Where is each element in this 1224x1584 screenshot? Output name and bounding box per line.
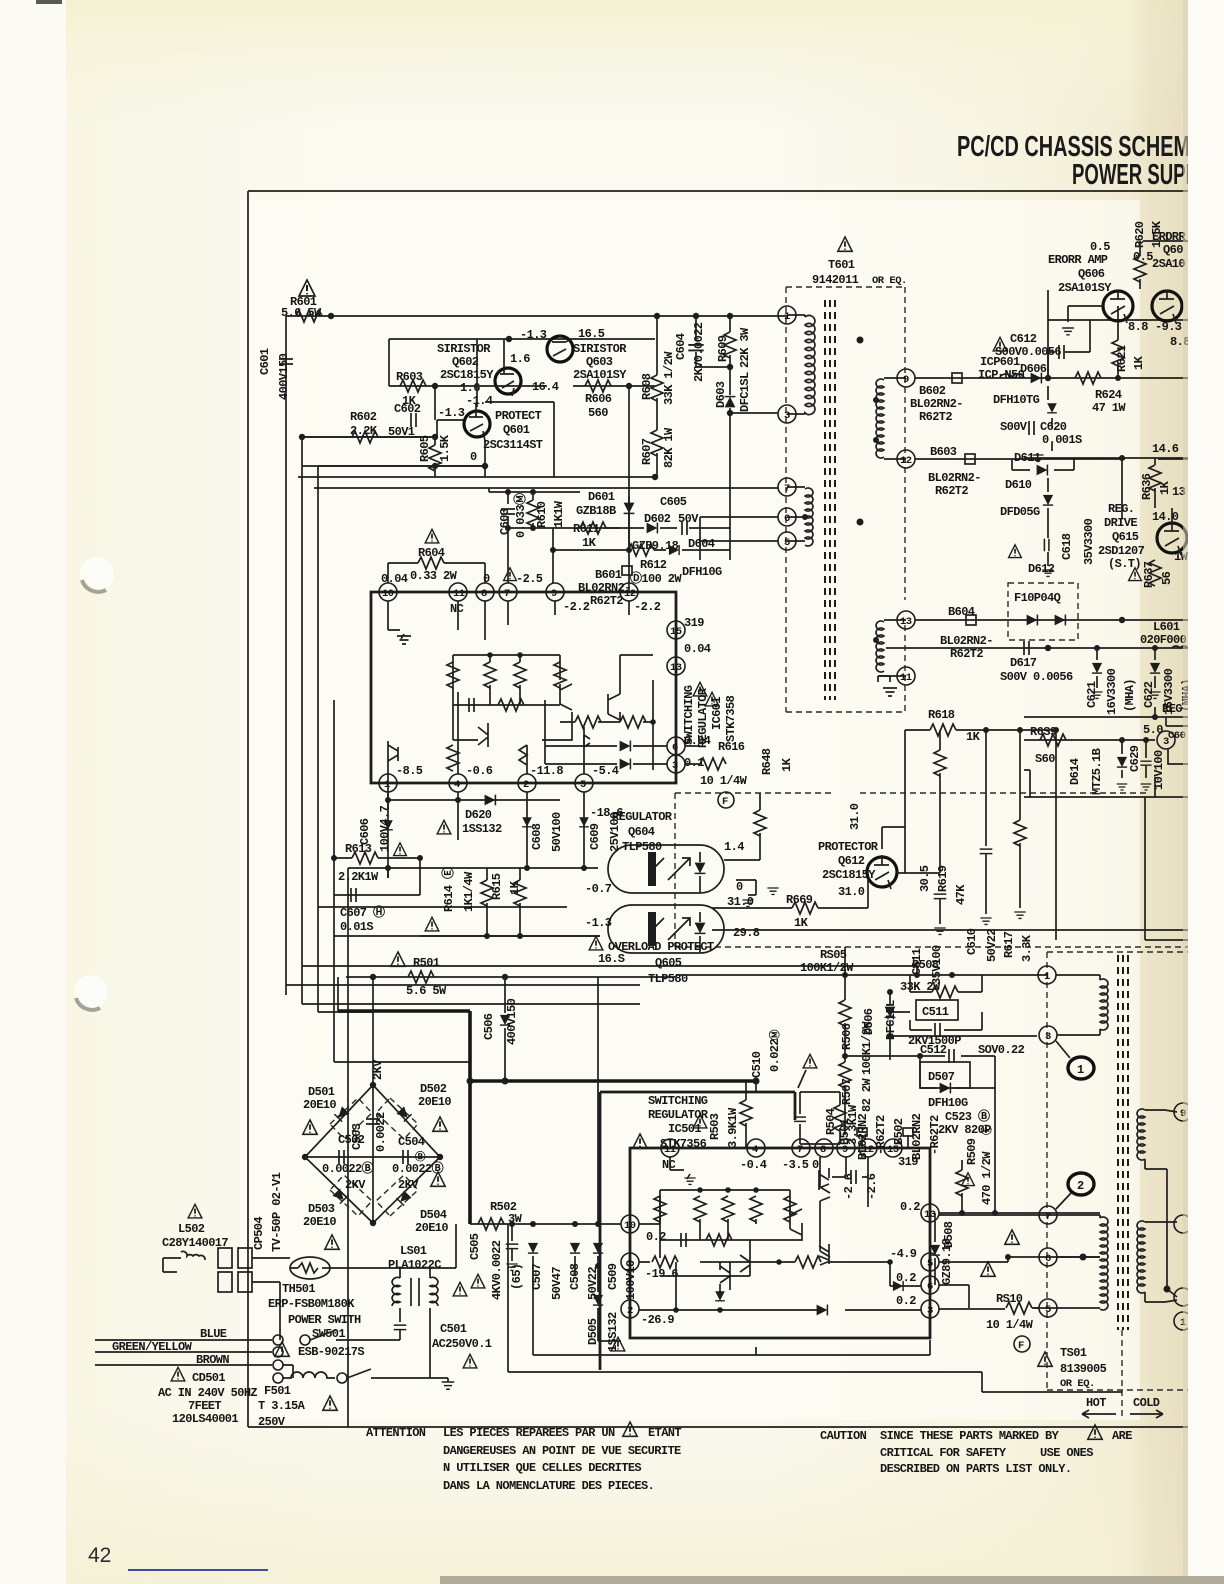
svg-text:11: 11 bbox=[900, 672, 912, 684]
svg-text:DRIVE: DRIVE bbox=[1104, 516, 1137, 530]
svg-text:5: 5 bbox=[784, 537, 790, 549]
svg-text:ETANT: ETANT bbox=[648, 1426, 681, 1440]
svg-text:1K: 1K bbox=[582, 536, 597, 550]
svg-text:L601: L601 bbox=[1153, 620, 1180, 634]
svg-text:10 1/4W: 10 1/4W bbox=[700, 774, 748, 788]
svg-text:R606: R606 bbox=[585, 392, 612, 406]
svg-text:ARE: ARE bbox=[1112, 1429, 1132, 1443]
svg-text:1K: 1K bbox=[794, 916, 809, 930]
svg-text:DFH10G: DFH10G bbox=[682, 565, 722, 579]
svg-text:82K 1W: 82K 1W bbox=[662, 427, 676, 468]
svg-text:R609: R609 bbox=[716, 335, 730, 362]
svg-text:D501: D501 bbox=[308, 1085, 335, 1099]
svg-text:7: 7 bbox=[1045, 1211, 1051, 1223]
svg-text:-1.3: -1.3 bbox=[585, 916, 612, 930]
svg-text:MTZ5.1B: MTZ5.1B bbox=[1090, 748, 1104, 795]
svg-text:Ⓜ: Ⓜ bbox=[768, 1029, 782, 1040]
svg-text:5.6 5W: 5.6 5W bbox=[406, 984, 447, 998]
svg-text:C509: C509 bbox=[606, 1263, 620, 1290]
svg-text:D610: D610 bbox=[1005, 478, 1032, 492]
svg-text:F: F bbox=[1018, 1340, 1024, 1352]
svg-text:120LS40001: 120LS40001 bbox=[172, 1412, 238, 1426]
svg-text:-2.2: -2.2 bbox=[563, 600, 590, 614]
svg-text:BL02RN2-: BL02RN2- bbox=[928, 471, 981, 485]
svg-text:Q602: Q602 bbox=[452, 355, 479, 369]
svg-text:100K1/2W: 100K1/2W bbox=[800, 961, 854, 975]
svg-text:-3.5: -3.5 bbox=[782, 1158, 809, 1172]
svg-text:D606: D606 bbox=[1020, 362, 1047, 376]
svg-text:12: 12 bbox=[900, 455, 912, 467]
svg-text:C606: C606 bbox=[358, 818, 372, 845]
svg-text:5: 5 bbox=[927, 1258, 933, 1270]
svg-text:CD501: CD501 bbox=[192, 1371, 225, 1385]
svg-text:BLUE: BLUE bbox=[200, 1327, 227, 1341]
svg-text:2KV: 2KV bbox=[371, 1059, 385, 1080]
svg-text:D612: D612 bbox=[1028, 562, 1055, 576]
svg-text:9142011: 9142011 bbox=[812, 273, 859, 287]
svg-text:0.0022Ⓑ: 0.0022Ⓑ bbox=[322, 1160, 374, 1176]
svg-text:8.8: 8.8 bbox=[1128, 320, 1148, 334]
svg-text:47K: 47K bbox=[954, 884, 968, 905]
svg-text:D614: D614 bbox=[1068, 758, 1082, 785]
svg-text:Q604: Q604 bbox=[628, 825, 655, 839]
svg-text:-8.5: -8.5 bbox=[396, 764, 423, 778]
svg-text:100K1/2W: 100K1/2W bbox=[860, 1021, 874, 1075]
svg-text:D617: D617 bbox=[1010, 656, 1037, 670]
svg-text:2SA101SY: 2SA101SY bbox=[1058, 281, 1112, 295]
svg-text:R602: R602 bbox=[350, 410, 377, 424]
svg-text:1.6: 1.6 bbox=[510, 352, 530, 366]
svg-text:(MHA): (MHA) bbox=[1123, 679, 1137, 712]
svg-text:ERP-FSB0M180K: ERP-FSB0M180K bbox=[268, 1297, 355, 1311]
svg-text:-19.6: -19.6 bbox=[645, 1267, 678, 1281]
svg-text:C612: C612 bbox=[1010, 332, 1037, 346]
svg-text:35V3300: 35V3300 bbox=[1082, 518, 1096, 565]
svg-text:5: 5 bbox=[1045, 1304, 1051, 1316]
svg-text:DFC1SL: DFC1SL bbox=[738, 372, 752, 412]
svg-text:R612: R612 bbox=[640, 558, 667, 572]
svg-text:1.5K: 1.5K bbox=[438, 434, 452, 462]
svg-text:C523 Ⓑ: C523 Ⓑ bbox=[945, 1108, 990, 1124]
svg-text:TS01: TS01 bbox=[1060, 1346, 1087, 1360]
svg-text:T601: T601 bbox=[828, 258, 855, 272]
svg-text:NC: NC bbox=[450, 602, 464, 616]
svg-text:2SC3114ST: 2SC3114ST bbox=[483, 438, 543, 452]
svg-text:50V22: 50V22 bbox=[985, 929, 999, 962]
svg-text:TLP580: TLP580 bbox=[622, 840, 662, 854]
svg-text:470 1/2W: 470 1/2W bbox=[980, 1151, 994, 1205]
svg-text:3.9K1W: 3.9K1W bbox=[726, 1107, 740, 1148]
svg-text:3.3K: 3.3K bbox=[1020, 934, 1034, 962]
svg-text:OR EQ.: OR EQ. bbox=[872, 275, 907, 287]
svg-text:Ⓕ: Ⓕ bbox=[980, 1124, 994, 1135]
svg-text:9: 9 bbox=[551, 588, 557, 600]
svg-text:15: 15 bbox=[670, 626, 682, 638]
svg-text:Q60: Q60 bbox=[1163, 243, 1183, 257]
svg-text:-R62T2: -R62T2 bbox=[874, 1115, 888, 1155]
svg-text:USE ONES: USE ONES bbox=[1040, 1446, 1093, 1460]
svg-text:D502: D502 bbox=[420, 1082, 447, 1096]
svg-text:C608: C608 bbox=[530, 823, 544, 850]
svg-text:82 2W: 82 2W bbox=[860, 1078, 874, 1112]
svg-text:C618: C618 bbox=[1060, 533, 1074, 560]
svg-text:SW501: SW501 bbox=[312, 1327, 345, 1341]
svg-text:-11.8: -11.8 bbox=[530, 764, 563, 778]
svg-text:B602: B602 bbox=[919, 384, 946, 398]
svg-text:R62T2: R62T2 bbox=[590, 594, 623, 608]
svg-text:2SD1207: 2SD1207 bbox=[1098, 544, 1145, 558]
svg-text:B601: B601 bbox=[595, 568, 622, 582]
svg-text:C502: C502 bbox=[338, 1133, 365, 1147]
svg-text:5: 5 bbox=[580, 779, 586, 791]
svg-text:R504: R504 bbox=[824, 1108, 838, 1135]
svg-text:AC IN 240V 50HZ: AC IN 240V 50HZ bbox=[158, 1386, 257, 1400]
svg-text:8139005: 8139005 bbox=[1060, 1362, 1107, 1376]
svg-text:0.2: 0.2 bbox=[896, 1294, 916, 1308]
svg-text:400V150: 400V150 bbox=[277, 353, 291, 400]
svg-text:020F000: 020F000 bbox=[1140, 633, 1187, 647]
svg-text:C603: C603 bbox=[498, 508, 512, 535]
svg-text:2: 2 bbox=[1077, 1179, 1084, 1193]
svg-text:0.0022: 0.0022 bbox=[374, 1112, 388, 1152]
svg-text:PROTECT: PROTECT bbox=[495, 409, 542, 423]
svg-text:2.2K1W: 2.2K1W bbox=[338, 870, 379, 884]
svg-text:REG.: REG. bbox=[1108, 502, 1134, 516]
svg-text:-R62T2: -R62T2 bbox=[928, 1115, 942, 1155]
svg-text:11: 11 bbox=[453, 588, 465, 600]
svg-text:IC601: IC601 bbox=[710, 697, 724, 730]
svg-text:D507: D507 bbox=[928, 1070, 955, 1084]
svg-text:B502: B502 bbox=[892, 1118, 906, 1145]
svg-text:D603: D603 bbox=[714, 381, 728, 408]
svg-text:2KV: 2KV bbox=[398, 1178, 419, 1192]
svg-text:C512: C512 bbox=[920, 1043, 947, 1057]
svg-text:4: 4 bbox=[752, 1144, 758, 1156]
svg-text:Q605: Q605 bbox=[655, 956, 682, 970]
svg-text:COLD: COLD bbox=[1133, 1396, 1160, 1410]
svg-text:31.0: 31.0 bbox=[727, 895, 754, 909]
svg-text:R509: R509 bbox=[965, 1138, 979, 1165]
svg-text:0.033Ⓜ: 0.033Ⓜ bbox=[512, 493, 528, 538]
svg-text:SIRISTOR: SIRISTOR bbox=[437, 342, 491, 356]
svg-text:-1.4: -1.4 bbox=[466, 394, 493, 408]
svg-text:BL02RN2: BL02RN2 bbox=[856, 1113, 870, 1160]
svg-text:0.04: 0.04 bbox=[684, 642, 711, 656]
svg-text:2KV: 2KV bbox=[345, 1178, 366, 1192]
svg-text:DFH10TG: DFH10TG bbox=[993, 393, 1040, 407]
svg-text:6: 6 bbox=[927, 1281, 933, 1293]
svg-text:C504: C504 bbox=[398, 1135, 425, 1149]
svg-text:10: 10 bbox=[382, 588, 394, 600]
svg-text:1K1/4W: 1K1/4W bbox=[462, 871, 476, 912]
svg-text:4KV0.0022: 4KV0.0022 bbox=[490, 1240, 504, 1300]
svg-text:10: 10 bbox=[624, 1220, 636, 1232]
svg-text:ERORR: ERORR bbox=[1152, 230, 1186, 244]
svg-text:S60: S60 bbox=[1035, 752, 1055, 766]
svg-text:2: 2 bbox=[523, 779, 529, 791]
svg-text:S00V: S00V bbox=[1000, 420, 1028, 434]
svg-text:50V1: 50V1 bbox=[388, 425, 415, 439]
svg-text:319: 319 bbox=[684, 616, 704, 630]
svg-text:-1.3: -1.3 bbox=[520, 328, 547, 342]
svg-text:31.0: 31.0 bbox=[838, 885, 865, 899]
svg-text:7: 7 bbox=[797, 1144, 803, 1156]
svg-text:R624: R624 bbox=[1095, 388, 1122, 402]
svg-text:16.4: 16.4 bbox=[532, 380, 559, 394]
svg-text:Q615: Q615 bbox=[1112, 530, 1139, 544]
svg-text:REG: REG bbox=[1162, 702, 1182, 716]
svg-text:22K 3W: 22K 3W bbox=[738, 327, 752, 368]
svg-text:0.2: 0.2 bbox=[896, 1271, 916, 1285]
svg-text:0.2: 0.2 bbox=[646, 1230, 666, 1244]
svg-text:1: 1 bbox=[384, 779, 390, 791]
svg-text:Q601: Q601 bbox=[503, 423, 530, 437]
svg-text:LS01: LS01 bbox=[400, 1244, 427, 1258]
svg-text:1SS132: 1SS132 bbox=[462, 822, 502, 836]
svg-text:0.022: 0.022 bbox=[768, 1039, 782, 1072]
svg-text:30.5: 30.5 bbox=[918, 865, 932, 892]
svg-text:BL02RN2: BL02RN2 bbox=[910, 1113, 924, 1160]
svg-text:6: 6 bbox=[1045, 1253, 1051, 1265]
svg-text:BROWN: BROWN bbox=[196, 1353, 229, 1367]
svg-text:IC501: IC501 bbox=[668, 1122, 701, 1136]
svg-text:F: F bbox=[722, 796, 728, 808]
svg-text:C501: C501 bbox=[440, 1322, 467, 1336]
svg-text:-9.3: -9.3 bbox=[1155, 320, 1182, 334]
svg-text:-0.6: -0.6 bbox=[466, 764, 493, 778]
svg-text:ATTENTION: ATTENTION bbox=[366, 1426, 426, 1440]
svg-text:3: 3 bbox=[1045, 1031, 1051, 1043]
svg-text:R669: R669 bbox=[786, 893, 813, 907]
svg-text:-1.3: -1.3 bbox=[438, 406, 465, 420]
svg-text:0.001S: 0.001S bbox=[1042, 433, 1082, 447]
svg-text:20E10: 20E10 bbox=[415, 1221, 448, 1235]
svg-text:-0.4: -0.4 bbox=[740, 1158, 767, 1172]
svg-text:AC250V0.1: AC250V0.1 bbox=[432, 1337, 492, 1351]
svg-text:9: 9 bbox=[903, 374, 909, 386]
svg-text:BL02RN2-: BL02RN2- bbox=[940, 634, 993, 648]
svg-text:GZB18B: GZB18B bbox=[576, 504, 616, 518]
svg-text:C609: C609 bbox=[588, 823, 602, 850]
svg-text:7: 7 bbox=[504, 588, 510, 600]
svg-text:ERORR AMP: ERORR AMP bbox=[1048, 253, 1108, 267]
svg-text:13: 13 bbox=[900, 616, 912, 628]
svg-text:100V4.7: 100V4.7 bbox=[378, 805, 392, 852]
svg-text:R618: R618 bbox=[928, 708, 955, 722]
svg-text:Ⓓ100 2W: Ⓓ100 2W bbox=[630, 570, 682, 586]
svg-text:1: 1 bbox=[1077, 1063, 1084, 1077]
svg-text:0: 0 bbox=[736, 880, 743, 894]
svg-text:16V3300: 16V3300 bbox=[1105, 668, 1119, 715]
svg-text:8: 8 bbox=[481, 588, 487, 600]
svg-text:C60: C60 bbox=[1168, 730, 1186, 742]
svg-text:R503: R503 bbox=[708, 1113, 722, 1140]
svg-text:13: 13 bbox=[670, 662, 682, 674]
svg-text:10V100: 10V100 bbox=[1152, 750, 1166, 790]
svg-text:R62T2: R62T2 bbox=[950, 647, 983, 661]
svg-text:100V10: 100V10 bbox=[624, 1260, 638, 1300]
svg-text:R648: R648 bbox=[760, 748, 774, 775]
svg-text:-2.2: -2.2 bbox=[634, 600, 661, 614]
svg-text:F501: F501 bbox=[264, 1384, 291, 1398]
svg-text:D620: D620 bbox=[465, 808, 492, 822]
svg-text:PROTECTOR: PROTECTOR bbox=[818, 840, 879, 854]
svg-text:7: 7 bbox=[784, 483, 790, 495]
svg-text:C601: C601 bbox=[258, 348, 272, 375]
svg-text:B501: B501 bbox=[838, 1118, 852, 1145]
svg-text:Q603: Q603 bbox=[586, 355, 613, 369]
svg-text:D503: D503 bbox=[308, 1202, 335, 1216]
svg-text:1K1W: 1K1W bbox=[552, 500, 566, 528]
svg-text:C629: C629 bbox=[1128, 745, 1142, 772]
svg-text:20E10: 20E10 bbox=[303, 1098, 336, 1112]
svg-text:R617: R617 bbox=[1002, 931, 1016, 958]
svg-text:D504: D504 bbox=[420, 1208, 447, 1222]
svg-text:2: 2 bbox=[627, 1305, 633, 1317]
svg-text:560: 560 bbox=[588, 406, 608, 420]
svg-text:-2.5: -2.5 bbox=[516, 572, 543, 586]
svg-text:R62T2: R62T2 bbox=[935, 484, 968, 498]
svg-text:R610: R610 bbox=[535, 501, 549, 528]
svg-text:C610: C610 bbox=[965, 928, 979, 955]
svg-text:Q612: Q612 bbox=[838, 854, 865, 868]
svg-text:3: 3 bbox=[672, 760, 678, 772]
svg-text:CP504: CP504 bbox=[252, 1217, 266, 1250]
svg-text:DFD05G: DFD05G bbox=[1000, 505, 1040, 519]
svg-text:C507: C507 bbox=[530, 1263, 544, 1290]
svg-text:CAUTION: CAUTION bbox=[820, 1429, 867, 1443]
svg-text:SOV0.22: SOV0.22 bbox=[978, 1043, 1025, 1057]
svg-text:SWITCHING: SWITCHING bbox=[648, 1094, 708, 1108]
svg-text:S00V 0.0056: S00V 0.0056 bbox=[1000, 670, 1073, 684]
svg-text:OR EQ.: OR EQ. bbox=[1060, 1378, 1095, 1390]
svg-text:POWER SWITH: POWER SWITH bbox=[288, 1313, 361, 1327]
svg-text:ESB-90217S: ESB-90217S bbox=[298, 1345, 364, 1359]
svg-text:C511: C511 bbox=[922, 1005, 949, 1019]
svg-text:0.5: 0.5 bbox=[1090, 240, 1110, 254]
svg-text:TLP580: TLP580 bbox=[648, 972, 688, 986]
svg-text:R615: R615 bbox=[490, 873, 504, 900]
svg-text:0: 0 bbox=[470, 450, 477, 464]
svg-text:47 1W: 47 1W bbox=[1092, 401, 1126, 415]
svg-text:N UTILISER QUE CELLES DECRITES: N UTILISER QUE CELLES DECRITES bbox=[443, 1461, 641, 1475]
svg-text:DANS LA NOMENCLATURE DES PIECE: DANS LA NOMENCLATURE DES PIECES. bbox=[443, 1479, 654, 1493]
svg-text:C605: C605 bbox=[660, 495, 687, 509]
svg-text:B604: B604 bbox=[948, 605, 975, 619]
svg-text:0.04: 0.04 bbox=[381, 572, 408, 586]
svg-text:-18.6: -18.6 bbox=[590, 806, 623, 820]
svg-text:STK7358: STK7358 bbox=[724, 695, 738, 742]
svg-text:3: 3 bbox=[784, 410, 790, 422]
svg-text:HOT: HOT bbox=[1086, 1396, 1106, 1410]
svg-text:4: 4 bbox=[454, 779, 460, 791]
svg-text:0.01S: 0.01S bbox=[340, 920, 373, 934]
svg-text:C506: C506 bbox=[482, 1013, 496, 1040]
svg-text:14.6: 14.6 bbox=[1152, 442, 1179, 456]
svg-text:DFH10G: DFH10G bbox=[928, 1096, 968, 1110]
svg-text:7FEET: 7FEET bbox=[188, 1399, 221, 1413]
svg-text:B603: B603 bbox=[930, 445, 957, 459]
svg-text:D604: D604 bbox=[688, 537, 715, 551]
svg-text:R501: R501 bbox=[413, 956, 440, 970]
svg-text:C505: C505 bbox=[468, 1233, 482, 1260]
svg-text:-4.9: -4.9 bbox=[890, 1247, 917, 1261]
svg-text:TH501: TH501 bbox=[282, 1282, 315, 1296]
svg-text:8: 8 bbox=[820, 1144, 826, 1156]
svg-text:-0.7: -0.7 bbox=[585, 882, 612, 896]
svg-text:-26.9: -26.9 bbox=[641, 1313, 674, 1327]
svg-text:DESCRIBED ON PARTS LIST ONLY.: DESCRIBED ON PARTS LIST ONLY. bbox=[880, 1462, 1071, 1476]
svg-text:2KV0.0022: 2KV0.0022 bbox=[692, 322, 706, 382]
svg-text:L502: L502 bbox=[178, 1222, 205, 1236]
svg-text:1K: 1K bbox=[1132, 355, 1146, 370]
svg-text:C510: C510 bbox=[750, 1051, 764, 1078]
svg-text:16.5: 16.5 bbox=[578, 327, 605, 341]
svg-text:20E10: 20E10 bbox=[418, 1095, 451, 1109]
svg-text:1K: 1K bbox=[966, 730, 981, 744]
svg-text:C604: C604 bbox=[674, 333, 688, 360]
svg-text:D601: D601 bbox=[588, 490, 615, 504]
svg-text:R603: R603 bbox=[396, 370, 423, 384]
svg-text:CRITICAL FOR SAFETY: CRITICAL FOR SAFETY bbox=[880, 1446, 1007, 1460]
svg-text:50V47: 50V47 bbox=[550, 1267, 564, 1300]
svg-text:31.0: 31.0 bbox=[848, 803, 862, 830]
svg-text:400V150: 400V150 bbox=[505, 998, 519, 1045]
svg-text:GREEN/YELLOW: GREEN/YELLOW bbox=[112, 1340, 193, 1354]
svg-text:2SA101SY: 2SA101SY bbox=[573, 368, 627, 382]
svg-text:0: 0 bbox=[483, 572, 490, 586]
svg-text:-5.4: -5.4 bbox=[592, 764, 619, 778]
svg-text:42: 42 bbox=[88, 1544, 111, 1567]
svg-text:Ⓑ: Ⓑ bbox=[415, 1150, 426, 1164]
svg-text:0.33 2W: 0.33 2W bbox=[410, 569, 458, 583]
svg-text:Q606: Q606 bbox=[1078, 267, 1105, 281]
svg-text:13: 13 bbox=[924, 1209, 936, 1221]
svg-text:R506: R506 bbox=[840, 1023, 854, 1050]
svg-text:RS05: RS05 bbox=[820, 948, 847, 962]
svg-text:LES PIECES REPAREES PAR UN: LES PIECES REPAREES PAR UN bbox=[443, 1426, 615, 1440]
svg-text:11: 11 bbox=[664, 1144, 676, 1156]
svg-text:SINCE THESE PARTS MARKED BY: SINCE THESE PARTS MARKED BY bbox=[880, 1429, 1060, 1443]
svg-text:R62T2: R62T2 bbox=[919, 410, 952, 424]
svg-text:0: 0 bbox=[812, 1158, 819, 1172]
svg-text:29.8: 29.8 bbox=[733, 926, 760, 940]
svg-text:16.S: 16.S bbox=[598, 952, 625, 966]
svg-text:50V100: 50V100 bbox=[550, 812, 564, 852]
svg-text:10 1/4W: 10 1/4W bbox=[986, 1318, 1034, 1332]
svg-text:TV-50P 02-V1: TV-50P 02-V1 bbox=[270, 1172, 284, 1252]
svg-text:D508: D508 bbox=[942, 1221, 956, 1248]
svg-text:T 3.15A: T 3.15A bbox=[258, 1399, 306, 1413]
svg-text:3: 3 bbox=[927, 1305, 933, 1317]
svg-text:5.0: 5.0 bbox=[1143, 723, 1163, 737]
svg-text:C620: C620 bbox=[1040, 420, 1067, 434]
svg-text:1SS132: 1SS132 bbox=[606, 1312, 620, 1352]
svg-text:R614 Ⓔ: R614 Ⓔ bbox=[440, 867, 456, 912]
svg-text:F10P04Q: F10P04Q bbox=[1014, 591, 1061, 605]
svg-text:2SA10: 2SA10 bbox=[1152, 257, 1185, 271]
svg-text:C607 Ⓗ: C607 Ⓗ bbox=[340, 904, 385, 920]
svg-text:R613: R613 bbox=[345, 842, 372, 856]
svg-text:BL02RN2-: BL02RN2- bbox=[910, 397, 963, 411]
svg-text:1K: 1K bbox=[780, 757, 794, 772]
svg-text:2SC1815Y: 2SC1815Y bbox=[440, 368, 494, 382]
svg-text:20E10: 20E10 bbox=[303, 1215, 336, 1229]
svg-text:1: 1 bbox=[1044, 971, 1050, 983]
svg-text:R508: R508 bbox=[912, 958, 939, 972]
svg-text:6: 6 bbox=[672, 742, 678, 754]
svg-text:REGULATOR: REGULATOR bbox=[648, 1108, 709, 1122]
